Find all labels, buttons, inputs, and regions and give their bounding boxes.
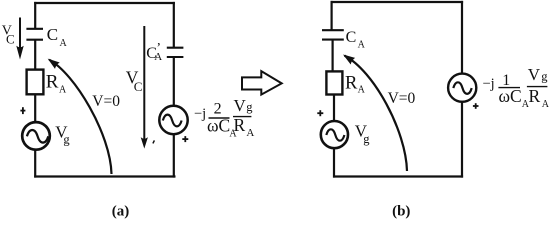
svg-text:−j: −j	[194, 106, 206, 122]
label (b)	[392, 204, 410, 220]
svg-text:A: A	[358, 85, 366, 96]
svg-text:R: R	[234, 115, 246, 135]
big arrow between circuits	[242, 71, 282, 94]
capacitor C_A (a)	[26, 29, 43, 40]
wire resistor-source (a)	[34, 94, 36, 122]
svg-text:A: A	[246, 127, 254, 139]
svg-text:R: R	[345, 74, 358, 94]
fraction bar Vg/RA (b)	[527, 86, 548, 88]
wire left-top (a)	[34, 2, 36, 28]
wire left-top (b)	[331, 1, 333, 31]
label V=0 (a)	[92, 93, 120, 110]
label + (a-left source)	[20, 107, 25, 114]
label + (b-right source)	[473, 103, 479, 109]
label V_g (b)	[355, 121, 371, 146]
label C'_A (a)	[146, 41, 162, 63]
svg-text:C: C	[346, 29, 357, 46]
wire source-bottom (b)	[333, 147, 335, 178]
label C_A (b)	[346, 29, 366, 51]
svg-text:R: R	[46, 72, 59, 93]
arrow V_C (a-left)	[16, 18, 23, 60]
arrow V_C (a-mid)	[141, 26, 148, 149]
capacitor C'_A (a)	[167, 48, 184, 57]
curved arrow V=0 (a)	[48, 59, 112, 174]
wire top (b)	[331, 1, 464, 3]
fraction bar 1/wCA (b)	[498, 87, 520, 89]
wire cap-source (a-right)	[173, 57, 175, 107]
label R_A (a)	[46, 72, 67, 96]
wire source-bottom (a-right)	[173, 133, 175, 178]
svg-text:V=0: V=0	[92, 93, 120, 110]
svg-text:A: A	[542, 99, 550, 110]
prime tick (a-mid)	[153, 140, 155, 143]
svg-text:C: C	[6, 31, 15, 46]
svg-text:ωC: ωC	[499, 86, 522, 106]
source V_g (a)	[22, 122, 50, 150]
svg-text:A: A	[60, 38, 68, 49]
svg-text:g: g	[363, 132, 370, 146]
label V_g (a)	[55, 122, 70, 146]
svg-text:g: g	[541, 69, 548, 83]
svg-text:A: A	[154, 51, 162, 63]
fraction bar 2/wCA (a)	[209, 117, 230, 119]
wire bottom (a)	[34, 175, 175, 177]
svg-text:V=0: V=0	[388, 90, 416, 107]
svg-text:−j: −j	[483, 76, 495, 92]
source dependent (a-right)	[159, 106, 187, 134]
label C_A (a)	[47, 25, 68, 49]
svg-text:g: g	[246, 100, 253, 114]
wire cap-resistor (a)	[34, 40, 36, 71]
wire source-bottom (b-right)	[461, 101, 463, 178]
svg-text:C: C	[134, 79, 143, 94]
svg-text:A: A	[59, 85, 67, 96]
source dependent (b-right)	[448, 74, 476, 102]
label (a)	[112, 204, 130, 220]
wire bottom (b)	[333, 175, 463, 177]
svg-text:V: V	[528, 65, 541, 84]
svg-text:R: R	[529, 86, 541, 106]
resistor R_A (b)	[326, 71, 342, 94]
label -j 1/wCA Vg/RA (b-right)	[483, 65, 550, 110]
source V_g (b)	[321, 121, 348, 148]
svg-text:(a): (a)	[112, 204, 130, 220]
wire right-top (b)	[461, 1, 463, 74]
svg-text:V: V	[234, 96, 247, 115]
wire source-bottom (a)	[34, 150, 36, 178]
svg-text:A: A	[358, 40, 366, 51]
resistor R_A (a)	[27, 70, 44, 95]
wire right-top (a)	[173, 2, 175, 47]
fraction bar Vg/RA (a)	[233, 116, 251, 118]
wire top (a)	[34, 2, 175, 4]
label + (a-right source)	[182, 136, 188, 142]
label V_C (a-left)	[2, 24, 15, 47]
wire cap-resistor (b)	[332, 40, 334, 72]
curved arrow V=0 (b)	[343, 55, 407, 172]
svg-text:g: g	[63, 133, 70, 147]
label + (b-left source)	[317, 110, 323, 116]
svg-text:(b): (b)	[392, 204, 410, 220]
label R_A (b)	[345, 74, 366, 96]
label V=0 (b)	[388, 90, 416, 107]
wire resistor-source (b)	[333, 94, 335, 122]
label -j 2/wCA Vg/RA (a-right)	[194, 96, 254, 139]
svg-text:C: C	[47, 25, 58, 44]
label V_C (a-mid)	[126, 68, 143, 94]
capacitor C_A (b)	[322, 30, 344, 39]
